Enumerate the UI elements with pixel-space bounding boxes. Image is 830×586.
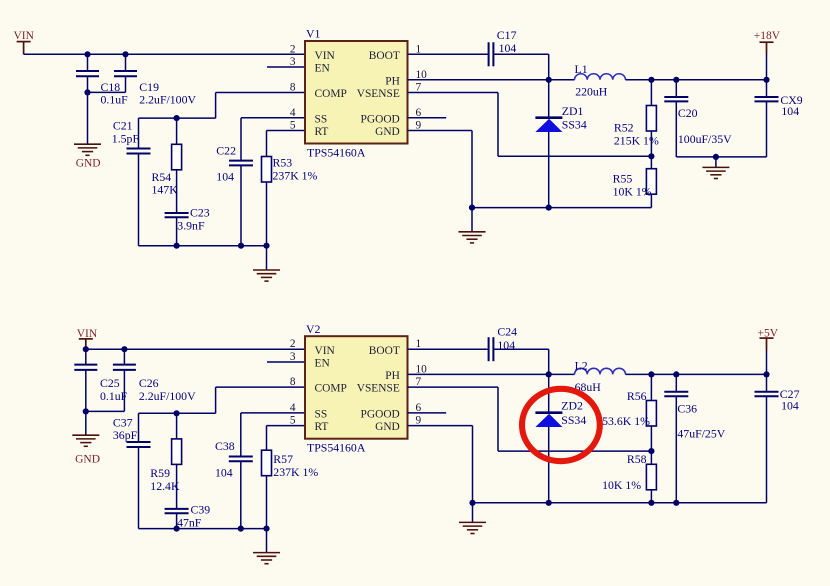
wire RT pin 5 of V2 xyxy=(267,425,306,427)
svg-text:TPS54160A: TPS54160A xyxy=(307,441,366,455)
wire PH pin 10 of V1 to L1 xyxy=(408,79,575,81)
wire VSENSE pin 7 of V1 xyxy=(408,92,499,94)
svg-text:C22: C22 xyxy=(216,144,236,158)
wire COMP pin 8 of V1 xyxy=(216,92,305,94)
svg-text:C25: C25 xyxy=(100,376,120,390)
svg-text:VIN: VIN xyxy=(14,30,35,42)
wire C36 lower lead xyxy=(675,396,677,503)
wire R58 lower lead xyxy=(650,490,652,503)
junction C20 top xyxy=(673,77,679,83)
svg-text:SS: SS xyxy=(315,409,328,421)
wire RT down to R57 xyxy=(266,426,268,451)
wire C20 upper lead xyxy=(675,80,677,97)
junction power ground corner xyxy=(469,205,475,211)
junction at C19 top xyxy=(122,51,128,57)
junction C23 bottom xyxy=(174,243,180,249)
inductor L1 xyxy=(575,74,626,80)
wire CX9 lower lead xyxy=(766,101,768,156)
ground stub below pin 9 bus xyxy=(471,208,473,232)
wire R55 lower lead xyxy=(650,194,652,207)
wire bootstrap down to PH net xyxy=(548,54,550,80)
wire L1 to +18V node xyxy=(626,79,767,81)
svg-text:104: 104 xyxy=(215,466,233,480)
wire PH pin 10 of V2 to L2 xyxy=(408,373,575,375)
capacitor C37 xyxy=(127,442,151,447)
wire ground stub below R57 xyxy=(266,529,268,553)
svg-text:8: 8 xyxy=(290,82,296,94)
junction R52 top xyxy=(648,77,654,83)
svg-text:R56: R56 xyxy=(627,389,647,403)
svg-text:BOOT: BOOT xyxy=(369,50,400,62)
svg-text:GND: GND xyxy=(76,158,101,170)
svg-text:GND: GND xyxy=(75,454,100,466)
wire RT pin 5 of V1 xyxy=(267,130,306,132)
wire compensation node horizontal (bottom) xyxy=(139,412,216,414)
junction bootstrap/PH/ZD2 xyxy=(546,371,552,377)
wire C17 to PH corner xyxy=(493,53,548,55)
capacitor C36 xyxy=(664,392,688,396)
wire R53 lower lead xyxy=(266,182,268,246)
junction R58 bottom xyxy=(648,500,654,506)
wire C25 lower lead xyxy=(85,370,87,435)
svg-text:SS34: SS34 xyxy=(562,118,587,132)
wire GND pin 9 of V1 xyxy=(408,130,473,132)
capacitor C24 xyxy=(489,337,494,361)
wire C19 upper lead xyxy=(125,54,127,71)
svg-text:3: 3 xyxy=(290,56,296,68)
svg-text:COMP: COMP xyxy=(315,383,347,395)
junction R53 bottom xyxy=(263,243,269,249)
svg-text:104: 104 xyxy=(781,399,799,413)
wire C19 lower lead xyxy=(125,76,127,92)
svg-text:0.1uF: 0.1uF xyxy=(101,92,129,106)
svg-text:1: 1 xyxy=(416,43,422,55)
svg-text:SS: SS xyxy=(315,113,328,125)
wire GND pin 9 of V2 xyxy=(408,425,473,427)
svg-text:PGOOD: PGOOD xyxy=(361,409,400,421)
junction C18/C19 bottom node xyxy=(84,89,90,95)
junction C36 bottom xyxy=(673,500,679,506)
svg-text:12.4K: 12.4K xyxy=(150,479,180,493)
svg-text:VSENSE: VSENSE xyxy=(357,383,400,395)
svg-text:C26: C26 xyxy=(139,376,159,390)
inductor L2 xyxy=(575,368,626,374)
svg-text:C17: C17 xyxy=(497,28,517,42)
junction C38 bottom xyxy=(238,526,244,532)
wire C26 upper lead xyxy=(123,349,125,364)
wire power ground bus xyxy=(472,207,651,209)
svg-text:ZD2: ZD2 xyxy=(561,399,583,413)
svg-text:10: 10 xyxy=(416,69,428,81)
svg-text:VSENSE: VSENSE xyxy=(357,88,400,100)
svg-text:100uF/35V: 100uF/35V xyxy=(678,132,732,146)
wire bottom ground bus xyxy=(473,502,767,504)
wire C39 lower lead xyxy=(176,513,178,528)
power port +18V xyxy=(766,42,768,54)
wire C37 lower lead xyxy=(138,447,140,529)
svg-text:36pF: 36pF xyxy=(113,428,138,442)
junction C25/C26 bottom node xyxy=(83,408,89,414)
svg-text:2: 2 xyxy=(290,43,296,55)
capacitor C25 xyxy=(74,365,97,370)
svg-text:10: 10 xyxy=(416,363,428,375)
svg-text:5: 5 xyxy=(290,415,296,427)
resistor R59 xyxy=(172,439,182,465)
wire output capacitor ground bus xyxy=(676,156,766,158)
svg-text:10K 1%: 10K 1% xyxy=(613,184,652,198)
svg-text:L1: L1 xyxy=(575,62,588,76)
svg-text:PH: PH xyxy=(385,75,400,87)
svg-text:9: 9 xyxy=(416,120,422,132)
wire C22 lower lead xyxy=(240,165,242,245)
svg-text:5: 5 xyxy=(290,120,296,132)
highlight circle around ZD2 xyxy=(522,389,600,461)
wire BOOT pin 1 of V1 to C17 xyxy=(408,53,489,55)
svg-text:VIN: VIN xyxy=(77,328,98,340)
wire C18 lower lead xyxy=(87,76,89,144)
wire power ground down (bottom) xyxy=(472,426,474,503)
wire power ground down xyxy=(471,131,473,208)
svg-text:R59: R59 xyxy=(150,466,170,480)
wire L2 to +5V node xyxy=(626,373,767,375)
ground below pin 9 (top circuit) xyxy=(459,232,486,243)
wire BOOT pin 1 of V2 to C24 xyxy=(408,348,489,350)
wire PGOOD stub pin 6 of V1 xyxy=(408,117,447,119)
svg-text:147K: 147K xyxy=(152,182,179,196)
svg-text:C39: C39 xyxy=(191,503,211,517)
svg-text:237K 1%: 237K 1% xyxy=(273,465,318,479)
wire COMP down to compensation node xyxy=(215,93,217,119)
wire C23 lower lead xyxy=(176,217,178,245)
junction at C25 top xyxy=(83,346,89,352)
ground GND (bottom left) xyxy=(72,435,99,446)
wire R52 upper lead xyxy=(650,80,652,106)
svg-text:+18V: +18V xyxy=(754,30,781,42)
power port VIN (bottom) xyxy=(85,339,87,349)
svg-text:6: 6 xyxy=(416,402,422,414)
wire R58 upper lead xyxy=(650,451,652,464)
wire VIN to pin 2 of V1 xyxy=(24,53,305,55)
capacitor C26 xyxy=(113,365,136,370)
svg-text:C36: C36 xyxy=(677,401,697,415)
svg-text:3: 3 xyxy=(290,351,296,363)
junction +18V node xyxy=(763,77,769,83)
wire SS pin 4 of V1 xyxy=(241,117,305,119)
wire CX9 upper lead xyxy=(766,80,768,97)
wire compensation ground bus (bottom) xyxy=(139,528,267,530)
wire R54 lower lead xyxy=(176,170,178,213)
ground below R57 xyxy=(253,553,280,564)
wire EN stub pin 3 of V2 xyxy=(267,361,305,363)
svg-text:237K 1%: 237K 1% xyxy=(273,169,318,183)
junction output ground stub xyxy=(713,154,719,160)
resistor R54 xyxy=(172,144,182,170)
svg-text:7: 7 xyxy=(416,376,422,388)
wire C22 upper lead xyxy=(240,118,242,161)
svg-text:6: 6 xyxy=(416,107,422,119)
wire C26 bottom to C25 branch xyxy=(86,410,125,412)
wire feedback to divider xyxy=(498,155,651,157)
junction C39 bottom xyxy=(174,526,180,532)
wire feedback to divider (bottom) xyxy=(498,450,651,452)
svg-text:PH: PH xyxy=(385,370,400,382)
wire +5V down to output node xyxy=(766,350,768,374)
junction at C26 top xyxy=(121,346,127,352)
wire VSENSE pin 7 of V2 xyxy=(408,386,499,388)
svg-text:GND: GND xyxy=(375,421,400,433)
wire COMP pin 8 of V2 xyxy=(216,386,305,388)
wire ZD1 cathode lead xyxy=(548,80,550,117)
wire ground stub below R53 xyxy=(266,246,268,270)
svg-text:L2: L2 xyxy=(575,359,588,373)
wire R59 upper lead xyxy=(176,413,178,439)
capacitor C19 xyxy=(114,71,137,76)
wire C19 bottom to C18 branch xyxy=(88,91,126,93)
junction C22 bottom xyxy=(238,243,244,249)
svg-text:VIN: VIN xyxy=(315,345,335,357)
svg-text:104: 104 xyxy=(499,41,517,55)
capacitor C23 xyxy=(165,213,189,217)
junction ZD2 anode xyxy=(546,500,552,506)
power port VIN (top left) xyxy=(23,42,25,55)
wire VIN to pin 2 of V2 xyxy=(86,348,305,350)
ground GND (top left) xyxy=(74,144,101,155)
ground below R53 xyxy=(253,270,280,281)
junction at C18 top xyxy=(84,51,90,57)
svg-text:TPS54160A: TPS54160A xyxy=(307,145,366,159)
wire ZD1 anode lead xyxy=(548,132,550,208)
svg-text:104: 104 xyxy=(781,104,799,118)
ground stub below output bus xyxy=(715,157,717,167)
resistor R58 xyxy=(646,464,656,490)
svg-text:V2: V2 xyxy=(306,322,321,336)
wire compensation node horizontal xyxy=(139,117,216,119)
wire bootstrap down to PH net (bottom) xyxy=(548,349,550,374)
junction +5V node xyxy=(763,371,769,377)
svg-text:ZD1: ZD1 xyxy=(562,104,584,118)
svg-text:GND: GND xyxy=(375,126,400,138)
svg-text:10K 1%: 10K 1% xyxy=(602,478,641,492)
svg-text:0.1uF: 0.1uF xyxy=(100,389,128,403)
resistor R56 xyxy=(646,401,656,427)
wire C25 upper lead xyxy=(85,349,87,364)
ground below C20/CX9 xyxy=(702,167,729,178)
svg-text:R55: R55 xyxy=(613,172,633,186)
junction C36 top xyxy=(673,371,679,377)
power port +5V xyxy=(766,338,768,350)
wire R56 lower lead xyxy=(650,426,652,451)
capacitor C39 xyxy=(165,509,189,513)
wire PGOOD stub pin 6 of V2 xyxy=(408,412,447,414)
wire C20 lower lead xyxy=(675,101,677,156)
capacitor CX9 xyxy=(755,97,779,101)
junction R57 bottom xyxy=(263,526,269,532)
wire C21 lower lead xyxy=(138,154,140,246)
svg-text:47uF/25V: 47uF/25V xyxy=(677,426,725,440)
junction R56 top xyxy=(648,371,654,377)
resistor R57 xyxy=(262,450,272,476)
capacitor C18 xyxy=(76,71,99,76)
svg-text:R53: R53 xyxy=(273,155,293,169)
wire C24 to PH corner xyxy=(493,348,548,350)
wire RT down to R53 xyxy=(266,131,268,157)
svg-text:+5V: +5V xyxy=(758,327,779,339)
wire C37 upper lead xyxy=(138,413,140,442)
wire R54 upper lead xyxy=(176,118,178,144)
svg-text:9: 9 xyxy=(416,415,422,427)
wire ZD2 cathode lead xyxy=(548,374,550,412)
svg-text:4: 4 xyxy=(290,402,296,414)
svg-text:2.2uF/100V: 2.2uF/100V xyxy=(139,389,196,403)
capacitor C22 xyxy=(229,161,253,166)
wire C18 upper lead xyxy=(87,54,89,71)
svg-text:SS34: SS34 xyxy=(561,413,586,427)
svg-text:2: 2 xyxy=(290,338,296,350)
ground stub below pin 9 bus (bottom) xyxy=(472,503,474,522)
wire compensation ground bus xyxy=(139,245,267,247)
wire +18V down to output node xyxy=(766,54,768,80)
svg-text:EN: EN xyxy=(315,63,330,75)
svg-text:R58: R58 xyxy=(627,452,647,466)
capacitor C21 xyxy=(127,149,151,154)
svg-text:COMP: COMP xyxy=(315,88,347,100)
svg-text:RT: RT xyxy=(315,126,329,138)
wire R55 upper lead xyxy=(650,156,652,168)
svg-text:215K 1%: 215K 1% xyxy=(614,134,659,148)
svg-text:1: 1 xyxy=(416,338,422,350)
junction R54 top xyxy=(174,115,180,121)
op-amp V1 TPS54160A regulator body xyxy=(305,41,408,144)
svg-text:47nF: 47nF xyxy=(177,516,202,530)
svg-text:C21: C21 xyxy=(113,118,133,132)
wire C38 lower lead xyxy=(240,461,242,528)
diode ZD2 SS34 xyxy=(535,413,562,427)
svg-text:VIN: VIN xyxy=(315,50,335,62)
svg-text:4: 4 xyxy=(290,107,296,119)
wire R56 upper lead xyxy=(650,374,652,400)
wire C38 upper lead xyxy=(240,413,242,457)
diode ZD1 SS34 xyxy=(535,118,562,132)
svg-text:C20: C20 xyxy=(678,106,698,120)
wire C26 lower lead xyxy=(123,370,125,412)
svg-text:EN: EN xyxy=(315,358,330,370)
junction power ground corner (bottom) xyxy=(469,500,475,506)
junction ZD1 anode xyxy=(546,205,552,211)
capacitor C38 xyxy=(229,457,253,462)
capacitor C17 xyxy=(489,42,494,66)
svg-text:7: 7 xyxy=(416,82,422,94)
svg-text:BOOT: BOOT xyxy=(369,345,400,357)
wire SS pin 4 of V2 xyxy=(241,412,305,414)
wire EN stub pin 3 of V1 xyxy=(267,66,305,68)
resistor R53 xyxy=(262,157,272,183)
svg-text:220uH: 220uH xyxy=(575,85,608,99)
capacitor C27 xyxy=(755,392,779,396)
svg-text:3.9nF: 3.9nF xyxy=(177,219,205,233)
capacitor C20 xyxy=(664,97,688,101)
wire ZD2 anode lead xyxy=(548,427,550,503)
wire R57 lower lead xyxy=(266,476,268,529)
svg-text:C24: C24 xyxy=(497,324,517,338)
junction R52/R55 divider node xyxy=(648,153,654,159)
op-amp V2 TPS54160A regulator body xyxy=(305,336,408,439)
svg-text:PGOOD: PGOOD xyxy=(361,113,400,125)
resistor R52 xyxy=(646,106,656,132)
wire COMP down to compensation node (bottom) xyxy=(215,387,217,413)
resistor R55 xyxy=(646,169,656,195)
wire VSENSE down (bottom) xyxy=(497,387,499,451)
svg-text:2.2uF/100V: 2.2uF/100V xyxy=(139,92,196,106)
svg-text:RT: RT xyxy=(315,421,329,433)
svg-text:C38: C38 xyxy=(215,439,235,453)
wire R59 lower lead xyxy=(176,464,178,509)
svg-text:V1: V1 xyxy=(306,27,321,41)
wire C27 lower lead xyxy=(766,396,768,503)
junction R56/R58 divider node xyxy=(648,448,654,454)
ground below pin 9 (bottom circuit) xyxy=(459,522,486,533)
svg-text:8: 8 xyxy=(290,376,296,388)
junction R59 top xyxy=(174,410,180,416)
junction bootstrap/PH/ZD1 xyxy=(546,77,552,83)
svg-text:53.6K 1%: 53.6K 1% xyxy=(602,414,650,428)
wire C21 upper lead xyxy=(138,118,140,148)
svg-text:104: 104 xyxy=(216,169,234,183)
wire C27 upper lead xyxy=(766,374,768,391)
svg-text:R52: R52 xyxy=(614,121,634,135)
wire R52 lower lead xyxy=(650,131,652,156)
wire C36 upper lead xyxy=(675,374,677,391)
svg-text:C23: C23 xyxy=(190,205,210,219)
wire VSENSE down xyxy=(497,93,499,157)
svg-text:1.5pF: 1.5pF xyxy=(112,131,140,145)
